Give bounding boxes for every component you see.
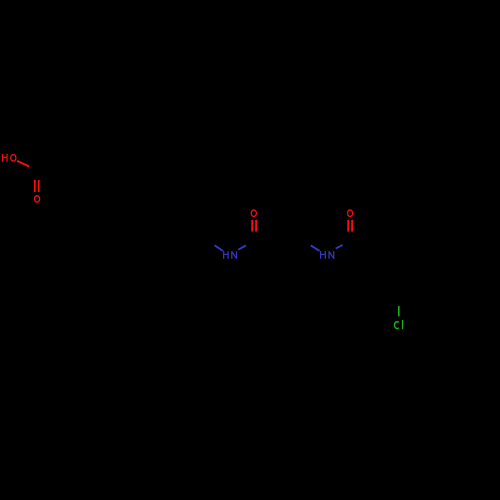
amide 1 NH: letter N (232, 251, 237, 259)
amide 2 carbonyl O: letter O (348, 210, 353, 217)
wire: acid C=O double bond line 1 (34, 180, 36, 192)
chlorine Cl: letter l (402, 320, 404, 329)
amide 2 NH: letter N (329, 251, 334, 259)
wire: acid C=O double bond line 2 (38, 180, 40, 192)
wire: acid O-C bond stub (red half) (17, 161, 29, 167)
acid hydroxyl HO: letter O (11, 155, 16, 162)
acid hydroxyl HO: letter H (2, 154, 7, 162)
wire: amide 2 N-CH2 stub (blue half) (311, 245, 320, 251)
wire: amide 1 C=O line 2 (255, 220, 257, 232)
amide 1 carbonyl O: letter O (251, 210, 256, 217)
wire: amide 1 N-CH2 stub (blue half) (215, 245, 223, 251)
wire: amide 2 N-C(=O) stub (blue half) (336, 245, 343, 249)
wire: amide 2 C=O line 1 (347, 220, 349, 232)
acid carbonyl O: letter O (35, 196, 40, 203)
wire: amide 1 C=O line 1 (251, 220, 253, 232)
wire: amide 2 C=O line 2 (351, 220, 353, 232)
wire: amide 1 N-C(=O) stub (blue half) (238, 246, 245, 250)
wire: C-Cl bond stub (green half) (398, 306, 400, 317)
amide 1 NH: letter H (224, 251, 228, 259)
chlorine Cl: letter C (395, 322, 399, 329)
amide 2 NH: letter H (321, 251, 326, 259)
